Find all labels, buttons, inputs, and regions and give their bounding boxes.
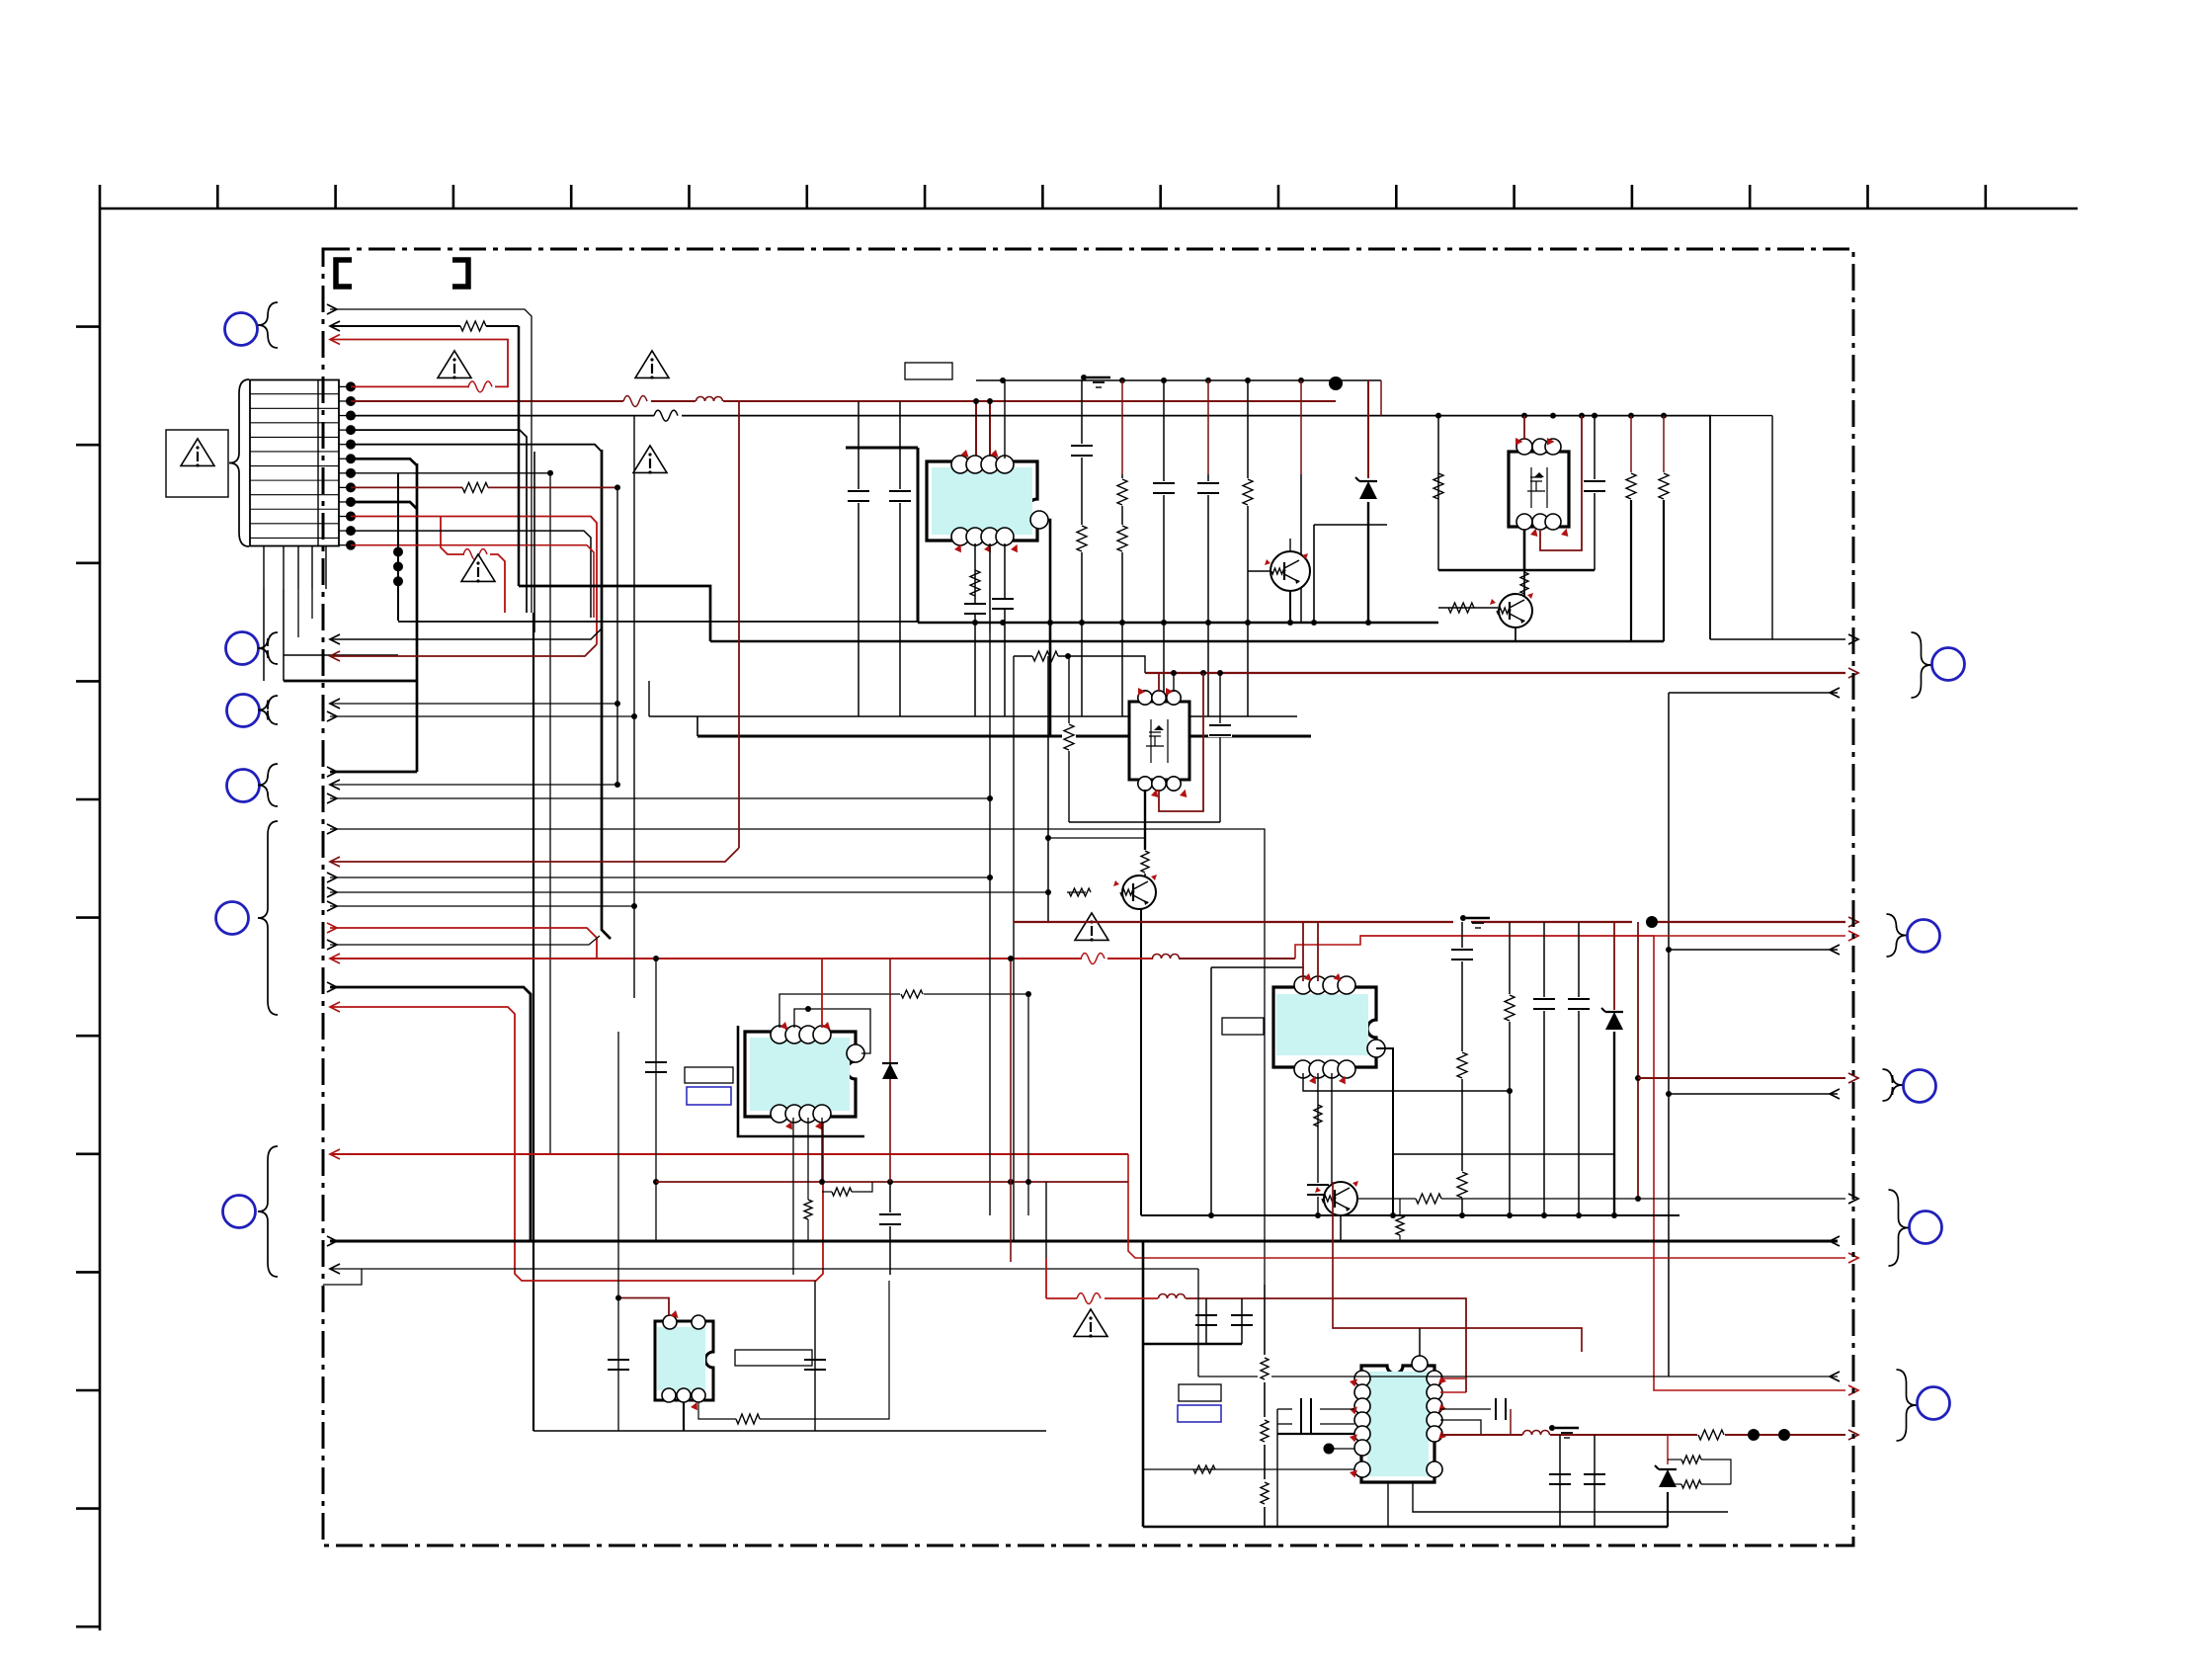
resistor R_H6 <box>1258 1417 1271 1445</box>
wire U5 pin1 net <box>1303 1073 1510 1091</box>
wire U7 right red <box>1440 1378 1466 1392</box>
wire row9 thick <box>351 502 417 509</box>
resistor R_Q2b <box>1448 603 1474 613</box>
wire trunk x626b <box>617 1032 619 1431</box>
resistor RB3_498 <box>1115 478 1129 506</box>
arrowhead 330 <box>330 321 340 331</box>
wire U5 pin2 net <box>1317 1073 1319 1215</box>
mosfet pack P1 <box>1509 439 1569 530</box>
wire trunk x540b <box>533 613 534 1431</box>
wire row12 red <box>351 545 594 618</box>
fuse F5 <box>1077 1293 1101 1304</box>
wire red 1344 <box>1333 1182 1582 1352</box>
resistor R_Q3 <box>1141 851 1149 873</box>
wire U1 bottoms <box>975 543 1005 716</box>
wire mid917 <box>330 905 634 907</box>
wire black 1168 <box>1393 1153 1614 1155</box>
warning triangle 1 <box>181 439 214 467</box>
wire 701 <box>1669 692 1838 694</box>
capacitor C_E1 <box>1306 1183 1330 1197</box>
title bracket right <box>452 260 468 287</box>
wire red trunk x1023 <box>1010 959 1012 1262</box>
U7 pin arrows <box>1350 1377 1446 1478</box>
inductor L2 <box>1153 955 1180 960</box>
junction 1107 <box>1666 1091 1672 1097</box>
IC7 label box1 <box>1179 1384 1221 1401</box>
wire U7 pin4R <box>1440 1420 1481 1435</box>
wire h385 <box>976 380 1381 416</box>
resistor R_F3 <box>804 1182 812 1241</box>
capacitor C_C1 <box>1583 416 1606 570</box>
wire U1 right pin <box>1048 520 1050 736</box>
warning triangle 6 <box>635 351 669 379</box>
wire mid872 red <box>330 848 739 862</box>
wire C r3 junctions <box>1435 413 1667 419</box>
wire red bus r2 <box>351 400 1336 402</box>
wire thick 1256 <box>330 1240 1838 1243</box>
wire D box right <box>1219 673 1221 822</box>
wire mid781 thick <box>330 771 417 774</box>
junction 961 <box>1666 947 1672 953</box>
wire trunk x1061 <box>1047 656 1049 922</box>
resistor R_C2 <box>1624 416 1638 641</box>
junction x664 <box>653 956 659 1185</box>
inductor L4 <box>1523 1431 1550 1436</box>
wire mid725 <box>330 715 634 717</box>
connector circle R3 <box>1904 1070 1936 1103</box>
wire U4 top net2 <box>794 1009 870 1053</box>
wire U7 pin7L <box>1143 1468 1354 1470</box>
wire 961 <box>1669 949 1838 951</box>
resistor RB2_545 <box>1075 525 1089 552</box>
wire Q4 bottom <box>1340 1215 1342 1241</box>
wire colE1 <box>1509 922 1511 1215</box>
wire v541 <box>533 452 535 632</box>
wire comb drop 2 <box>283 589 285 681</box>
junction 933 <box>1646 916 1658 928</box>
wire Q3 base <box>1067 891 1086 893</box>
arrowhead 1091 <box>1848 1073 1858 1083</box>
wire colB2 <box>1081 380 1083 716</box>
power IC U4 <box>745 1026 864 1123</box>
capacitor C_D1 <box>1208 723 1232 737</box>
wire U7 top pin <box>1419 1328 1421 1356</box>
wire red bus 1196 <box>656 1181 1128 1183</box>
connector circle L1 <box>225 313 258 346</box>
wire colB0 <box>858 401 860 716</box>
wire thick trunk x525 <box>518 326 521 586</box>
diode col <box>889 959 891 1275</box>
wire C thick 577 <box>1438 569 1595 572</box>
power IC U5 <box>1273 976 1385 1078</box>
wire U7 pin3R <box>1440 1408 1491 1410</box>
small IC U6 <box>655 1315 713 1402</box>
wire trunk x748 red <box>738 401 740 848</box>
wire mid956 <box>330 936 600 945</box>
U5 pin arrows <box>1304 973 1349 1086</box>
resistor RB3_545 <box>1115 525 1129 552</box>
arrowhead mid872 <box>330 857 340 867</box>
junction 681 <box>1171 670 1223 676</box>
capacitor C_b1 <box>963 603 987 615</box>
capacitor C_H1 <box>1195 1298 1217 1344</box>
warning triangle 3 <box>461 554 495 583</box>
wire trunk x557 <box>549 473 551 1154</box>
IC4 label box1 <box>685 1067 733 1083</box>
inductor L1 <box>696 397 723 402</box>
arrowhead 1452 <box>1848 1430 1858 1440</box>
resistor RE0b <box>1455 1171 1469 1199</box>
wire mid647 <box>330 628 602 639</box>
arrowhead 701 <box>1830 688 1840 698</box>
connector brace L1 <box>258 302 278 348</box>
junction dots x403 <box>393 547 403 587</box>
junction row7 <box>547 470 553 476</box>
resistor RB6_498 <box>1241 478 1255 506</box>
wire row5 <box>351 445 602 452</box>
resistor R_F1 <box>901 990 923 998</box>
capacitor C_H3 <box>1301 1398 1311 1435</box>
wire U5 top red <box>1303 922 1318 981</box>
wire comb drop 1 <box>263 589 265 681</box>
resistor R_D2 <box>1032 651 1058 661</box>
wire row4 <box>351 430 527 613</box>
capacitor CE0 <box>1450 948 1474 961</box>
wire Q2 emitter <box>1515 627 1516 641</box>
IC7 label box2 <box>1178 1405 1221 1422</box>
connector brace R1 <box>1912 632 1931 698</box>
wire trunk x642 <box>633 416 635 998</box>
wire 1107 <box>1669 1093 1838 1095</box>
junction H dots <box>1748 1429 1790 1441</box>
U1 pin arrows <box>953 450 1020 554</box>
wire trunk x1002 <box>989 632 991 1215</box>
arrowhead mid939 <box>327 923 337 933</box>
wire U1 pin17 <box>1004 380 1006 459</box>
wire mid939 red <box>330 928 597 959</box>
junction bus630 <box>972 620 1371 626</box>
fuse F6 <box>463 549 487 560</box>
wire red 1273 <box>1128 1154 1845 1258</box>
wire red bus 970 <box>330 958 1295 960</box>
wire U4 top net <box>779 994 1028 1028</box>
junction U5 <box>1507 1088 1513 1094</box>
U4 pin arrows <box>780 1022 831 1131</box>
wire trunk x1059 <box>1045 1182 1047 1258</box>
connector brace R4 <box>1889 1190 1909 1266</box>
wire trunk x1689 <box>1668 693 1670 1377</box>
wire row8 red <box>351 486 617 488</box>
wire red bus 1168 <box>330 1153 1128 1155</box>
connector CN1 block <box>250 380 339 546</box>
junction bus1196 <box>819 1179 1031 1185</box>
transistor Q1 <box>1265 551 1310 591</box>
fuse F3 <box>654 410 678 421</box>
wire red 681 bus <box>1145 672 1845 674</box>
connector brace L5 <box>258 821 278 1015</box>
arrowhead mid903 <box>327 887 337 897</box>
page ruler left line <box>99 209 102 1630</box>
connector circle R4 <box>1910 1211 1942 1244</box>
wire thick trunk x422 <box>416 463 419 772</box>
capacitor CB5_494 <box>1196 481 1220 495</box>
arrowhead 1168 <box>330 1149 340 1159</box>
resistor R_330 <box>460 321 486 331</box>
wire arrow313 <box>330 309 532 613</box>
wire U5 notch <box>1376 1048 1393 1215</box>
junction U7 <box>1324 1444 1335 1455</box>
wire Q2 stem <box>1523 570 1525 596</box>
wire comb drop 3 <box>297 589 299 637</box>
arrowhead mid781 <box>327 767 337 777</box>
arrowhead 933 <box>1848 917 1858 927</box>
wire bus 630 <box>398 622 1438 623</box>
wire P2 pin tops <box>1159 673 1174 692</box>
fuse F4 <box>1081 954 1105 964</box>
zener D4 col <box>1667 1435 1669 1527</box>
resistor R_D1 <box>1062 723 1076 751</box>
wire Q3 emitter <box>1140 909 1142 1215</box>
fuse F1 <box>468 381 492 392</box>
wire red 1019 <box>330 1007 823 1281</box>
connector brace R3 <box>1883 1069 1903 1101</box>
junction bus1230 <box>1208 1212 1617 1218</box>
IC4 thick frame <box>738 1026 864 1136</box>
junction 1658 <box>1635 1075 1641 1202</box>
junction x1002 <box>987 795 993 880</box>
wire row11 <box>351 531 591 618</box>
diode D3 <box>882 1063 898 1079</box>
warning box <box>166 430 228 497</box>
arrowhead row1 <box>330 335 340 345</box>
wire P1 thick drop <box>1523 530 1526 570</box>
wire trunk x1041 <box>1027 994 1029 1215</box>
arrowhead 1393 <box>1830 1372 1840 1381</box>
wire D box bottom <box>1069 821 1220 823</box>
resistor R_H4 <box>1193 1465 1215 1473</box>
resistor R_Q4b <box>1396 1199 1404 1241</box>
wire P2 red loop <box>1159 673 1203 811</box>
wire v1794 <box>1771 416 1773 639</box>
capacitor C_H4 <box>1496 1398 1511 1435</box>
wire trunk x1213 <box>1197 1269 1199 1377</box>
wire U4 red top <box>821 959 823 1028</box>
wire D top line <box>1014 656 1145 673</box>
resistor R_C3 <box>1657 416 1671 641</box>
wire trunk x625 <box>616 487 618 785</box>
wire red 1315 <box>1046 1258 1466 1392</box>
connector circle L3 <box>227 695 260 727</box>
capacitor C_b2 <box>991 598 1015 610</box>
junction x642 <box>631 713 637 909</box>
capacitor C_H6 <box>1584 1435 1605 1527</box>
wire P1 red loop <box>1540 416 1582 550</box>
wire U6 bottom <box>683 1402 685 1431</box>
arrowhead 1213 <box>1848 1194 1858 1204</box>
wire Q2 base <box>1438 607 1498 609</box>
wire colE3 <box>1578 922 1580 1215</box>
wire P2 pin1 drop <box>1144 790 1146 850</box>
resistor R_b1 <box>970 570 980 596</box>
wire U7 bottom <box>1388 1482 1728 1527</box>
arrowhead mid712 <box>330 699 340 709</box>
connector circle R5 <box>1918 1387 1950 1420</box>
arrowhead mid725 <box>327 711 337 721</box>
mosfet pack P2 <box>1129 691 1189 791</box>
wire mid903 <box>330 891 1048 893</box>
transistor Q2 <box>1490 593 1533 627</box>
wire 647 arrow line <box>1710 638 1845 640</box>
connector circle R2 <box>1908 920 1940 953</box>
capacitor CB0_502 <box>847 489 870 503</box>
junction F2 <box>805 1006 811 1012</box>
transistor Q4 <box>1315 1181 1358 1215</box>
capacitor CB2_456 <box>1070 444 1094 458</box>
wire 1284 <box>330 1268 1198 1270</box>
U6 pin arrows <box>671 1310 700 1412</box>
arrowhead 313 <box>327 304 337 314</box>
arrowhead 970 <box>330 954 340 963</box>
arrowhead mid917 <box>327 901 337 911</box>
wire mid888 <box>330 876 990 878</box>
wire thick 689 <box>284 680 417 683</box>
connector brace R2 <box>1887 914 1907 957</box>
connector brace L4 <box>258 764 278 806</box>
regulator IC U1 <box>927 456 1048 545</box>
arrowhead 1107 <box>1830 1089 1840 1099</box>
wire C col 1456 <box>1437 416 1439 570</box>
capacitor C_G1 <box>608 1360 629 1370</box>
connector brace L2 <box>258 632 278 664</box>
wire bus 1230 <box>1141 1214 1679 1216</box>
wire trunk x403 <box>397 473 399 621</box>
arrowhead 961 <box>1830 945 1840 955</box>
arrowhead 1256R <box>1830 1236 1840 1246</box>
wire colB5 <box>1207 380 1209 716</box>
wire zener col <box>1367 380 1369 623</box>
arrowhead 1019 <box>330 1002 340 1012</box>
wire bus 725 <box>649 715 1297 717</box>
inductor L3 <box>1159 1294 1186 1299</box>
resistor R_H7 <box>1258 1479 1271 1507</box>
capacitor C_F1 <box>645 1062 667 1072</box>
capacitor C_G2 <box>804 1281 826 1431</box>
wire red trunk x1658 <box>1637 922 1639 1199</box>
arrowhead 1273 <box>1848 1253 1858 1263</box>
wire trunk x609 thick <box>602 450 611 939</box>
junction r2 <box>973 398 993 404</box>
wire U7 pin5L <box>1277 1409 1354 1527</box>
connector circle L2 <box>226 632 259 665</box>
connector circle L4 <box>227 770 260 802</box>
wire E box <box>1211 967 1304 1215</box>
warning triangle 7 <box>633 446 667 474</box>
connector circle L5 <box>216 902 249 935</box>
wire colB6 <box>1247 380 1249 716</box>
wire U6 net <box>698 1281 889 1419</box>
power IC U7 <box>1354 1356 1442 1482</box>
resistor R_C1 <box>1434 473 1443 499</box>
wire v1280 <box>1264 1285 1266 1527</box>
connector CN1 brace <box>229 379 249 546</box>
wire row7 <box>351 472 550 474</box>
resistor RE0a <box>1455 1051 1469 1079</box>
wire arrow330 <box>330 325 519 327</box>
wire trunk x664 <box>655 959 657 1241</box>
IC6 label box <box>735 1350 812 1366</box>
arrowhead 1407 <box>1848 1385 1858 1395</box>
connector brace L3 <box>258 696 278 724</box>
resistor R_H3 <box>1668 1480 1731 1488</box>
arrowhead mid808 <box>327 793 337 803</box>
wire G bottom bus <box>533 1430 1046 1432</box>
wire colE2 <box>1543 922 1545 1215</box>
wire red 947b <box>1360 935 1845 937</box>
wire r2 drops red <box>976 401 990 460</box>
warning triangle 2 <box>438 351 471 379</box>
capacitor C_H5 <box>1549 1435 1571 1527</box>
wire thick 999 <box>330 987 531 1241</box>
wire colB4 <box>1163 380 1165 716</box>
wire row6 thick <box>351 459 417 465</box>
wire U5 pin3 net <box>1331 1073 1333 1189</box>
zener D4 <box>1655 1465 1677 1487</box>
junction x1023 <box>1008 956 1014 961</box>
wire Q3 link <box>1048 838 1145 883</box>
connector brace R5 <box>1897 1370 1917 1441</box>
junction U6 <box>615 1295 621 1301</box>
P1 pin arrows <box>1512 436 1570 540</box>
wire 745 drop <box>649 681 697 736</box>
wire D box left <box>1068 656 1070 822</box>
arrowhead mid794 <box>330 780 340 790</box>
transistor Q3 <box>1113 875 1157 909</box>
P2 pin arrows <box>1134 686 1188 800</box>
wire red 1091 <box>1638 1077 1845 1079</box>
wire 1393 <box>1198 1376 1838 1377</box>
arrowhead mid839 <box>327 824 337 834</box>
resistor R_G1 <box>736 1414 760 1424</box>
connector brace L6 <box>258 1146 278 1277</box>
arrowhead 647 <box>1848 634 1858 644</box>
wire red stair 947 <box>1295 936 1845 1390</box>
wire colB1 <box>899 401 901 716</box>
IC5 label box <box>1222 1018 1264 1035</box>
junction x625 <box>614 701 620 788</box>
wire 1284 branch <box>323 1269 362 1285</box>
wire mid808 <box>330 797 990 799</box>
wire thick 649 <box>710 640 1664 642</box>
page ruler top ticks <box>100 185 1986 209</box>
page ruler top line <box>100 208 2078 210</box>
warning triangle 4 <box>1075 913 1108 942</box>
capacitor C_F2 <box>878 1212 902 1226</box>
wire colB7 <box>1300 380 1302 623</box>
wire H thick frame <box>1143 1241 1242 1527</box>
arrowhead 681 <box>1848 668 1858 678</box>
arrowhead mid664 <box>330 651 340 661</box>
zener D1 <box>1355 477 1377 499</box>
capacitor CE2 <box>1532 997 1556 1011</box>
arrowhead mid647 <box>330 634 340 644</box>
wire row1 red <box>330 340 508 387</box>
arrowhead mid956 <box>327 940 337 950</box>
resistor R_Q4 <box>1416 1194 1441 1204</box>
page ruler left ticks <box>76 327 100 1627</box>
connector circle L6 <box>223 1196 256 1228</box>
junction row8 <box>614 484 620 490</box>
capacitor CB4_494 <box>1152 481 1176 495</box>
